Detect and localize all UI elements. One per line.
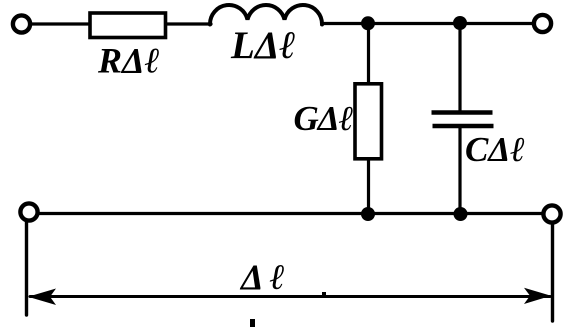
svg-text:GΔℓ: GΔℓ: [294, 99, 353, 138]
svg-text:CΔℓ: CΔℓ: [465, 130, 525, 169]
svg-text:RΔℓ: RΔℓ: [97, 41, 160, 81]
svg-text:LΔℓ: LΔℓ: [230, 24, 296, 67]
svg-text:Δℓ: Δℓ: [239, 257, 291, 297]
